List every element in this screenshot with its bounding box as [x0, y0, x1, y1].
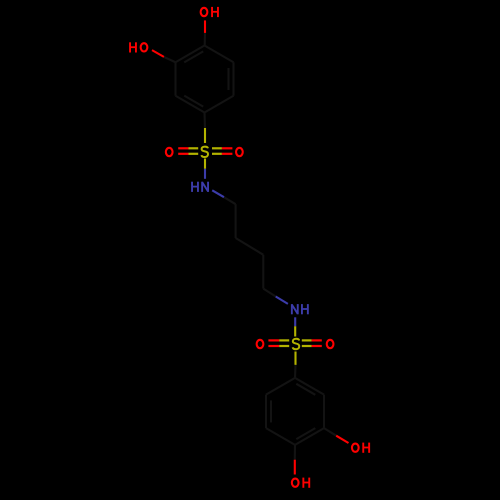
label OH bottom [292, 478, 309, 488]
hydroxyl O bottom of ring2: bond O-half [294, 460, 296, 475]
bond S2 to ring2 T2: C-half [294, 365, 297, 378]
bond N2 to S2: S-half [294, 326, 296, 336]
O left of S2 [257, 340, 264, 348]
bond N2 to S2: N-half [294, 317, 296, 326]
bond ring1 V4 to S1: C-half [203, 113, 206, 129]
hydroxyl O right of ring2: bond C-half [324, 428, 336, 436]
wire UR2-LR2 [323, 395, 325, 429]
wire inner double V4-V5 [184, 96, 203, 107]
bond N1 to chain C1: N-half [212, 190, 224, 197]
hydroxyl O right of ring2: bond O-half [336, 436, 348, 443]
bond S1 to N1: N-half [204, 169, 206, 179]
wire V1-V2 [205, 46, 234, 63]
wire B2-LL2 [266, 428, 295, 445]
O right of S2 [327, 340, 334, 348]
sulfonyl S1 label [202, 147, 209, 157]
wire V6-V1 [176, 46, 205, 63]
hydroxyl O left (HO): bond C-half [164, 57, 176, 62]
wire V5-V6 [174, 62, 176, 96]
wire UL2-T2 [266, 378, 295, 395]
label HO left [130, 42, 147, 52]
wire V3-V4 [205, 96, 234, 113]
hydroxyl O left (HO): bond O-half [152, 50, 164, 57]
bond chain C4 to N2: N-half [276, 297, 288, 304]
bond N1 to chain C1: C-half [224, 197, 236, 204]
O left of S1 [166, 148, 173, 156]
label NH (N2) [292, 304, 308, 314]
wire inner double V6-V1 [184, 51, 203, 62]
bond S1 to N1: S-half [204, 159, 206, 169]
wire LR2-B2 [295, 428, 324, 445]
S2=O left double bond [268, 340, 289, 346]
wire chain C2-C3 [236, 238, 264, 255]
hydroxyl O top: bond O-half [204, 20, 206, 33]
wire LL2-UL2 [265, 395, 267, 429]
wire chain C3-C4 [262, 255, 264, 289]
label HN (N1) [192, 182, 208, 192]
wire inner double LR2-B2 [296, 428, 315, 439]
wire inner double T2-UR2 [296, 384, 315, 395]
ring 2 benzene (bottom, 3,4-dihydroxyphenyl) [266, 378, 324, 445]
S1=O right double bond [212, 148, 232, 154]
label OH top [201, 7, 218, 17]
sulfonyl S2 label [293, 339, 300, 349]
S2=O right double bond [302, 340, 322, 346]
S1=O left double bond [178, 148, 198, 154]
O right of S1 [236, 148, 243, 156]
wire chain C1-C2 [235, 204, 237, 238]
label OH right [352, 443, 369, 453]
bond S2 to ring2 T2: S-half [294, 352, 296, 365]
hydroxyl O bottom of ring2: bond C-half [294, 445, 296, 460]
wire inner double V2-V3 [227, 68, 229, 90]
wire V2-V3 [232, 62, 234, 96]
ring 1 benzene (top, 3,4-dihydroxyphenyl) [176, 46, 234, 113]
wire inner double LL2-UL2 [270, 400, 272, 422]
bond ring1 V4 to S1: S-half [204, 128, 206, 143]
hydroxyl O top: bond C-half [204, 33, 206, 46]
bond chain C4 to N2: C-half [263, 289, 275, 297]
wire T2-UR2 [295, 378, 324, 395]
wire V4-V5 [176, 96, 205, 113]
